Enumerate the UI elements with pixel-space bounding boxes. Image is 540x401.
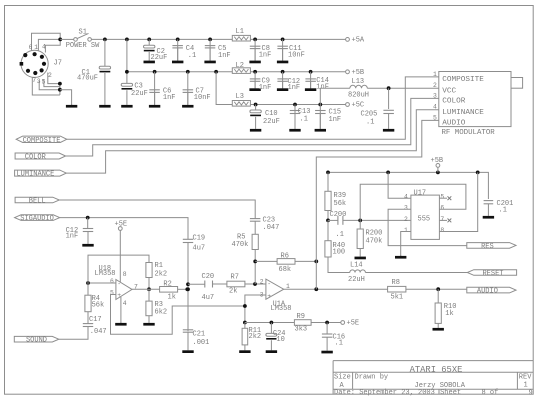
label C2 — [157, 48, 165, 56]
wire audio riser to RF pin5 — [316, 120, 439, 289]
label C14 value — [316, 83, 329, 91]
svg-text:7: 7 — [32, 77, 36, 84]
label C16 — [333, 333, 346, 341]
U17 pin label 7 — [440, 216, 444, 223]
label L13 value — [348, 92, 369, 100]
svg-text:1: 1 — [524, 382, 528, 390]
resistor R10 — [435, 303, 441, 323]
label R6 value — [279, 266, 292, 274]
power tap +5E lower — [341, 320, 359, 328]
junction rail1 x177 — [176, 38, 180, 42]
svg-text:2: 2 — [433, 82, 437, 89]
resistor R4 — [85, 295, 91, 312]
label R4 value — [92, 302, 105, 310]
ground C9 — [249, 81, 260, 91]
wire R6 left — [255, 260, 277, 262]
U18 plus — [117, 292, 121, 299]
label C201 — [497, 200, 514, 208]
ground C14 — [305, 81, 316, 91]
switch S1 — [74, 33, 92, 41]
connector J7 pin dot 7 — [26, 69, 30, 73]
svg-text:3: 3 — [37, 78, 41, 85]
svg-text:Size: Size — [334, 374, 351, 382]
svg-text:COLOR: COLOR — [25, 154, 47, 162]
label U18 — [99, 265, 112, 273]
label R9 — [297, 313, 305, 321]
pin label 7 — [32, 77, 36, 84]
svg-text:2k2: 2k2 — [155, 270, 168, 278]
pin label 5 — [42, 78, 46, 85]
capacitor C11 — [277, 46, 288, 48]
svg-text:COLOR: COLOR — [442, 98, 465, 106]
svg-text:L3: L3 — [236, 93, 244, 101]
port COLOR — [15, 153, 66, 162]
label R39 value — [334, 200, 347, 208]
svg-text:.047: .047 — [263, 224, 280, 232]
U1A pin label 2 — [260, 278, 264, 285]
port LUMINANCE — [15, 170, 67, 179]
label R39 — [334, 192, 347, 200]
junction rail2 x187 — [186, 70, 190, 74]
pin label 6 — [29, 44, 33, 51]
wire rail2 to rail3 drop — [216, 72, 232, 105]
resistor R2 — [160, 287, 178, 293]
resistor R11 — [242, 328, 248, 345]
svg-text:+5B: +5B — [431, 157, 444, 165]
title sheet num — [482, 389, 499, 397]
junction power node at switch — [58, 38, 62, 42]
U17 pin label 1 — [404, 227, 408, 234]
resistor R7 — [227, 281, 245, 287]
pin label 3 — [37, 78, 41, 85]
junction column C20 — [186, 282, 190, 286]
svg-text:555: 555 — [418, 216, 431, 224]
label R5 value — [232, 241, 249, 249]
junction rail1 x149 — [147, 38, 151, 42]
junction R1 output — [147, 287, 151, 291]
ground C24 — [266, 340, 277, 353]
svg-text:Sheet: Sheet — [440, 389, 461, 397]
label C20 — [202, 273, 215, 281]
junction rail2 x282 — [281, 70, 285, 74]
U1A pin label 1 — [286, 283, 290, 290]
svg-text:R39: R39 — [334, 192, 347, 200]
label C9 value — [259, 84, 272, 92]
svg-text:56k: 56k — [334, 200, 347, 208]
svg-text:5k1: 5k1 — [391, 294, 404, 302]
label C200 value — [336, 231, 344, 239]
wire J7 pin3 to gnd node — [39, 81, 60, 90]
title rev 1 — [524, 382, 528, 390]
label C10 value — [263, 118, 280, 126]
wire R3 top — [148, 289, 150, 301]
svg-text:470k: 470k — [366, 238, 383, 246]
label R10 — [444, 303, 457, 311]
label C3 — [134, 83, 142, 91]
wire J7 pin4 to power node — [45, 39, 60, 52]
wire C5 leads — [209, 39, 211, 60]
resistor R9 — [294, 320, 311, 326]
svg-text:ATARI 65XE: ATARI 65XE — [410, 365, 463, 375]
wire SIGAUDIO to C19 — [60, 218, 188, 240]
svg-text:.1: .1 — [366, 119, 374, 127]
wire J7 pin5 to gnd node — [44, 80, 60, 87]
label C23 — [263, 217, 276, 225]
capacitor C12 — [83, 229, 93, 232]
title Drawn by — [355, 374, 389, 382]
svg-text:470uF: 470uF — [77, 74, 98, 82]
wire C16 top lead — [326, 323, 328, 335]
label C4 — [186, 45, 194, 53]
ground C205 — [383, 114, 394, 132]
junction rail2 x310 — [309, 70, 313, 74]
svg-text:7: 7 — [440, 216, 444, 223]
label R200 — [366, 230, 383, 238]
wire C2 top lead — [148, 39, 150, 45]
svg-text:J7: J7 — [54, 60, 62, 68]
label C201 value — [499, 206, 507, 214]
svg-text:3: 3 — [404, 205, 408, 212]
wire rail1 after L1 — [250, 38, 345, 40]
wire C10 top lead — [255, 105, 257, 111]
wire U17 pin1 to gnd — [401, 232, 411, 256]
svg-text:1nF: 1nF — [218, 52, 231, 60]
junction rail R39 — [326, 171, 330, 175]
title size A — [340, 382, 345, 390]
capacitor C200 — [338, 216, 343, 225]
connector J7 keying notch — [20, 62, 24, 66]
svg-text:1k: 1k — [168, 293, 176, 301]
wire C20 to R7 — [213, 283, 227, 285]
label R2 — [163, 281, 171, 289]
label C24 value — [276, 336, 284, 344]
title date — [334, 389, 435, 397]
wire U17 pin3 to RES — [388, 209, 467, 245]
capacitor C19 — [183, 239, 193, 242]
svg-text:8 of: 8 of — [482, 389, 499, 397]
ground C10 — [250, 117, 261, 132]
junction node C200 left — [326, 219, 330, 223]
svg-text:6: 6 — [110, 278, 114, 285]
svg-text:1nF: 1nF — [66, 233, 79, 241]
label C200 — [330, 211, 347, 219]
svg-text:22uF: 22uF — [263, 118, 280, 126]
power tap +5E upper — [115, 220, 128, 230]
junction J7 gnd 2 — [58, 88, 62, 92]
label C205 — [361, 111, 378, 119]
wire U18 feedback top — [88, 255, 149, 283]
junction R6 riser — [314, 260, 318, 264]
RF modulator pin number 5 — [433, 114, 437, 121]
wire R1 bottom — [148, 278, 150, 290]
wire R4 top lead — [87, 283, 89, 295]
label 555 — [418, 216, 431, 224]
svg-text:2k2: 2k2 — [249, 333, 262, 341]
wire C19 to column — [187, 243, 189, 332]
capacitor C8 — [250, 46, 261, 48]
label L1 — [236, 28, 244, 36]
title author — [415, 382, 466, 390]
svg-text:LUMINANCE: LUMINANCE — [16, 171, 54, 179]
svg-text:L2: L2 — [236, 62, 244, 70]
label L14 — [350, 262, 363, 270]
junction bias pin3 — [243, 304, 247, 308]
svg-text:.047: .047 — [90, 328, 107, 336]
ground C5 — [204, 48, 215, 63]
capacitor C12 rail2 — [277, 79, 288, 81]
svg-text:Date: September 23, 2003: Date: September 23, 2003 — [334, 389, 435, 397]
svg-text:C205: C205 — [361, 111, 378, 119]
svg-text:1: 1 — [34, 44, 38, 51]
label S1 — [79, 29, 87, 37]
label R3 — [155, 301, 163, 309]
svg-text:1k: 1k — [445, 310, 453, 318]
svg-text:4: 4 — [404, 194, 408, 201]
svg-text:1: 1 — [404, 227, 408, 234]
no-connect pin5 — [448, 196, 452, 200]
inductor L14 — [350, 270, 366, 273]
junction R2 column — [185, 287, 189, 291]
junction rail +5B — [436, 171, 440, 175]
ground U17 pin1 — [395, 255, 406, 259]
capacitor C23 — [250, 219, 261, 222]
svg-text:LM358: LM358 — [271, 305, 292, 313]
connector J7 pin dot 4 — [42, 62, 46, 66]
wire U17 pin8 to rail — [439, 172, 477, 231]
RF modulator pin name AUDIO — [442, 120, 465, 128]
capacitor C20 — [205, 281, 213, 288]
svg-text:R200: R200 — [366, 230, 383, 238]
label R1 value — [155, 270, 168, 278]
label C205 value — [366, 119, 374, 127]
title block frame — [333, 361, 533, 395]
inductor L2 — [232, 68, 250, 74]
label R8 value — [391, 294, 404, 302]
wire U17 pin4 — [388, 172, 411, 198]
junction rail1 x104 — [103, 38, 107, 42]
junction rail2 x126 — [125, 70, 129, 74]
RF modulator pin name COMPOSITE — [442, 76, 484, 84]
label C4 value — [188, 52, 196, 60]
label R11 value — [249, 333, 262, 341]
ground R200 — [355, 249, 366, 260]
svg-text:R9: R9 — [297, 313, 305, 321]
label U1A — [273, 301, 286, 309]
label R5 — [237, 234, 245, 242]
wire C11 leads — [282, 39, 284, 60]
label C12 value — [66, 233, 79, 241]
svg-text:3k3: 3k3 — [295, 325, 308, 333]
svg-text:-: - — [117, 280, 121, 287]
ground U18 pin4 — [115, 322, 126, 326]
wire R39 bottom — [327, 211, 329, 221]
capacitor C7 — [183, 90, 194, 93]
RF modulator pin number 4 — [433, 104, 437, 111]
svg-text:+5A: +5A — [352, 37, 365, 45]
wire U1A pin3 — [245, 295, 266, 323]
junction rail2 x154 — [153, 70, 157, 74]
label L2 — [236, 62, 244, 70]
svg-text:1nF: 1nF — [316, 83, 329, 91]
resistor R1 — [146, 263, 152, 278]
capacitor C5 — [205, 46, 216, 48]
wire rail2 — [127, 71, 232, 73]
svg-text:-: - — [267, 281, 271, 288]
port AUDIO — [467, 287, 516, 295]
ground C21 — [182, 332, 193, 353]
svg-text:6: 6 — [29, 44, 33, 51]
ground C4 — [172, 48, 183, 63]
svg-text:VCC: VCC — [442, 88, 456, 96]
wire C6 leads — [154, 72, 156, 105]
svg-text:.1: .1 — [300, 116, 308, 124]
wire R39 top — [327, 172, 329, 191]
wire C23 to R5 — [254, 221, 256, 234]
port SIGAUDIO — [15, 215, 60, 223]
pin label 2 — [48, 72, 52, 79]
label J7 — [54, 60, 62, 68]
svg-text:8: 8 — [440, 227, 444, 234]
resistor R8 — [388, 286, 406, 292]
wire rail2 after L2 — [250, 71, 345, 73]
U17 pin label 3 — [404, 205, 408, 212]
wire R8 to AUDIO flag — [406, 288, 467, 290]
wire R11 top — [244, 323, 246, 329]
junction rail1 x255 — [253, 38, 257, 42]
junction rail pin4 — [386, 171, 390, 175]
wire rail1 — [91, 38, 232, 40]
wire R40 top — [327, 220, 329, 240]
svg-text:AUDIO: AUDIO — [442, 120, 465, 128]
wire SOUND to C17 — [59, 327, 88, 340]
svg-text:R2: R2 — [163, 281, 171, 289]
svg-text:COMPOSITE: COMPOSITE — [442, 76, 484, 84]
label R40 — [333, 242, 346, 250]
svg-text:L14: L14 — [350, 262, 363, 270]
ground C7 — [182, 92, 193, 107]
svg-text:4: 4 — [123, 300, 127, 307]
wire C13 leads — [294, 105, 296, 129]
svg-text:SIGAUDIO: SIGAUDIO — [20, 215, 54, 223]
wire C9 leads — [254, 72, 256, 89]
label C19 value — [193, 245, 206, 253]
junction R5 R6 — [253, 260, 257, 264]
svg-text:.001: .001 — [193, 339, 210, 347]
ground C3 — [121, 90, 132, 107]
label C8 value — [259, 51, 272, 59]
wire R10 top — [437, 289, 439, 303]
ground C13 — [289, 114, 300, 132]
wire J7 pin2 to gnd node — [48, 73, 60, 84]
label C13 value — [300, 116, 308, 124]
wire C12 top lead — [87, 218, 89, 229]
svg-text:RES: RES — [481, 243, 494, 251]
svg-text:AUDIO: AUDIO — [477, 288, 498, 296]
RF modulator pin number 2 — [433, 82, 437, 89]
label C11 — [289, 45, 302, 53]
label C1 — [82, 69, 90, 77]
ground C6 — [149, 92, 160, 107]
RF modulator pin number 1 — [433, 71, 437, 78]
svg-text:2: 2 — [260, 278, 264, 285]
junction VCC C205 — [387, 86, 391, 90]
capacitor C10 — [250, 110, 261, 116]
wire R7 to U1A pin2 — [245, 283, 266, 285]
label R9 value — [295, 325, 308, 333]
title Size — [334, 374, 351, 382]
U17 pin label 8 — [440, 227, 444, 234]
label C17 value — [90, 328, 107, 336]
svg-text:R8: R8 — [392, 279, 400, 287]
U17 pin label 2 — [404, 216, 408, 223]
power tap +5A — [346, 37, 365, 45]
svg-text:.1: .1 — [335, 340, 343, 348]
U17 pin label 4 — [404, 194, 408, 201]
wire U17 pin5 nc — [439, 197, 447, 199]
label C1 value — [77, 74, 98, 82]
label C5 — [218, 45, 226, 53]
junction bias R11 — [243, 321, 247, 325]
label R2 value — [168, 293, 176, 301]
ground C15 — [315, 114, 326, 132]
junction column R2 — [186, 287, 190, 291]
connector J7 pin dot 1 — [23, 53, 27, 57]
svg-text:100: 100 — [333, 248, 346, 256]
svg-text:+5C: +5C — [352, 102, 365, 110]
svg-text:R6: R6 — [281, 253, 289, 261]
label U1A part — [271, 305, 292, 313]
capacitor C16 — [322, 334, 333, 337]
capacitor C15 — [315, 111, 326, 114]
resistor R5 — [252, 234, 258, 249]
svg-text:1nF: 1nF — [288, 84, 301, 92]
wire C14 leads — [310, 72, 312, 89]
ground C201 — [483, 204, 494, 219]
wire J7 pin1 to power node — [38, 39, 60, 50]
svg-text:C20: C20 — [202, 273, 215, 281]
wire C12 rail2 leads — [282, 72, 284, 89]
resistor R3 — [146, 301, 152, 316]
U1A pin label 3 — [260, 292, 264, 299]
timer U17 — [411, 195, 440, 239]
svg-text:S1: S1 — [79, 29, 87, 37]
svg-text:R7: R7 — [231, 274, 239, 282]
U1A minus — [267, 281, 271, 288]
svg-text:LUMINANCE: LUMINANCE — [442, 109, 484, 117]
wire rail3 after L3 — [250, 104, 345, 106]
ground R3 — [143, 316, 154, 326]
label R8 — [392, 279, 400, 287]
label R40 value — [333, 248, 346, 256]
ground R10 — [433, 323, 444, 330]
capacitor C21 — [183, 330, 193, 332]
wire rail3 to L13 — [320, 88, 350, 104]
junction rail3 x255 — [254, 103, 258, 107]
label R11 — [249, 327, 262, 335]
svg-text:4u7: 4u7 — [193, 245, 206, 253]
junction rail3 x295 — [293, 103, 297, 107]
svg-text:C200: C200 — [330, 211, 347, 219]
label RF MODULATOR — [442, 129, 496, 137]
junction R10 — [436, 287, 440, 291]
inductor L3 — [232, 101, 250, 107]
svg-text:+5B: +5B — [352, 69, 365, 77]
svg-text:C21: C21 — [193, 330, 206, 338]
label C15 value — [329, 116, 342, 124]
U18 pin label 4 — [123, 300, 127, 307]
label C21 — [193, 330, 206, 338]
junction U18 pin6 node — [86, 281, 90, 285]
